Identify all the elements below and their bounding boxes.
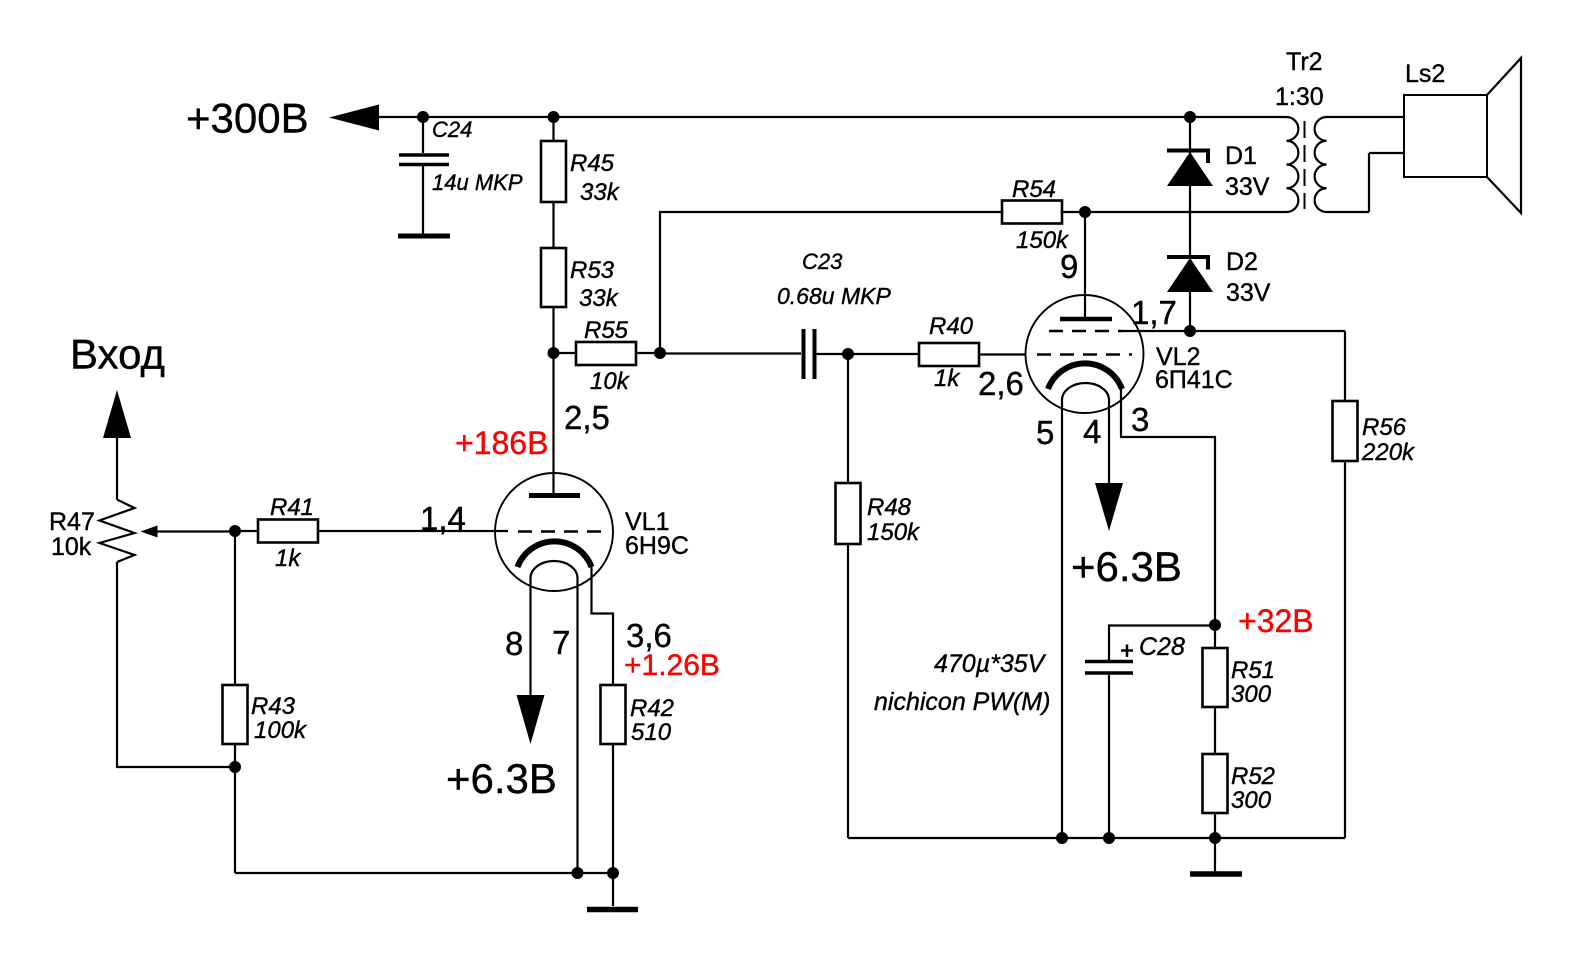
label pin 3 bbox=[1131, 401, 1149, 438]
svg-text:+6.3В: +6.3В bbox=[1071, 543, 1182, 590]
wire feedback riser to R54 line bbox=[660, 212, 1002, 353]
node +300B supply label bbox=[186, 95, 309, 142]
filament VL1 bbox=[531, 561, 578, 578]
svg-text:10k: 10k bbox=[51, 533, 92, 561]
capacitor C24 bbox=[399, 155, 449, 165]
node R52 ground bbox=[1209, 832, 1221, 844]
wire R55 right lead bbox=[636, 352, 660, 354]
label R47 value bbox=[51, 533, 92, 561]
node 2,5 bbox=[548, 347, 560, 359]
svg-text:nichicon PW(M): nichicon PW(M) bbox=[874, 688, 1050, 716]
svg-text:+300В: +300В bbox=[186, 95, 309, 142]
label R43 bbox=[251, 693, 296, 720]
label R55 bbox=[584, 317, 629, 344]
zener D1 bbox=[1167, 152, 1213, 186]
wire C24 top lead bbox=[422, 117, 424, 153]
svg-text:Tr2: Tr2 bbox=[1286, 48, 1323, 76]
svg-text:2,5: 2,5 bbox=[564, 399, 610, 436]
label C28 brand bbox=[874, 688, 1050, 716]
potentiometer R47 bbox=[100, 500, 135, 563]
label R40 bbox=[929, 313, 974, 340]
wire secondary top to speaker bbox=[1327, 116, 1405, 118]
label pins 2,5 bbox=[564, 399, 610, 436]
svg-text:+32В: +32В bbox=[1238, 603, 1314, 639]
label R48 bbox=[867, 494, 912, 521]
wire VL2 pin 4 heater bbox=[1108, 400, 1110, 483]
resistor R40 bbox=[919, 343, 979, 366]
label C24 value bbox=[432, 170, 523, 195]
wire VL2 screen to R56 bbox=[1121, 331, 1345, 401]
label C28 polarity + bbox=[1121, 645, 1133, 658]
node pin5 ground bbox=[1056, 832, 1068, 844]
grid VL1 (dashed) bbox=[518, 530, 603, 533]
svg-text:1k: 1k bbox=[275, 545, 302, 572]
label pins 2,6 bbox=[978, 365, 1024, 402]
label D2 value bbox=[1226, 279, 1271, 307]
label pins 3,6 bbox=[626, 617, 672, 654]
node C24 tap bbox=[417, 111, 429, 123]
svg-text:7: 7 bbox=[552, 624, 570, 661]
filament VL2 bbox=[1062, 383, 1109, 400]
svg-text:1:30: 1:30 bbox=[1275, 83, 1324, 111]
label D1 value bbox=[1225, 173, 1270, 201]
zener D1 cathode bar bbox=[1167, 151, 1210, 164]
ground C24 bbox=[398, 234, 450, 239]
wire R54 to transformer primary bottom bbox=[1062, 211, 1287, 213]
wire R51 top lead bbox=[1214, 625, 1216, 648]
wire R48 bottom lead bbox=[847, 544, 849, 838]
wire R45 top lead bbox=[552, 117, 554, 141]
label R47 bbox=[49, 508, 95, 536]
wire C23 to R40 node bbox=[816, 353, 919, 355]
wire +300B rail bbox=[379, 116, 1287, 118]
label D2 bbox=[1226, 248, 1258, 276]
svg-text:R41: R41 bbox=[270, 494, 314, 521]
label input bbox=[70, 331, 165, 378]
label +1.26B bbox=[624, 649, 720, 682]
anode plate VL1 bbox=[529, 493, 580, 498]
svg-text:C24: C24 bbox=[432, 117, 472, 142]
svg-text:R55: R55 bbox=[584, 317, 629, 344]
label R40 value bbox=[934, 365, 961, 392]
label pin 4 bbox=[1083, 413, 1101, 450]
wire R48 top lead bbox=[847, 354, 849, 483]
svg-text:2,6: 2,6 bbox=[978, 365, 1024, 402]
node 1,7 bbox=[1184, 325, 1196, 337]
svg-text:33k: 33k bbox=[580, 179, 621, 206]
node R42 ground bbox=[607, 867, 619, 879]
arrow +6.3B right bbox=[1095, 483, 1123, 531]
resistor R41 bbox=[258, 520, 318, 543]
svg-text:33V: 33V bbox=[1226, 279, 1271, 307]
wire VL2 anode lead bbox=[1084, 212, 1086, 318]
svg-text:+6.3В: +6.3В bbox=[446, 755, 557, 802]
zener D2 bbox=[1167, 258, 1213, 292]
transformer Tr2 primary bbox=[1287, 117, 1299, 212]
resistor R42 bbox=[601, 685, 626, 744]
label R56 value bbox=[1361, 439, 1416, 466]
label R43 value bbox=[254, 717, 308, 744]
svg-text:R47: R47 bbox=[49, 508, 95, 536]
wire R55 left lead bbox=[554, 352, 577, 354]
svg-text:5: 5 bbox=[1036, 414, 1054, 451]
svg-text:R45: R45 bbox=[570, 150, 615, 177]
resistor R54 bbox=[1002, 201, 1062, 224]
svg-text:C23: C23 bbox=[802, 249, 843, 274]
svg-text:33V: 33V bbox=[1225, 173, 1270, 201]
label +186B bbox=[455, 425, 548, 461]
svg-text:470µ*35V: 470µ*35V bbox=[934, 650, 1047, 678]
wire R52 bottom bbox=[1214, 813, 1216, 838]
wire R42 bottom bbox=[612, 744, 614, 873]
arrow input bbox=[103, 390, 131, 438]
label R54 bbox=[1012, 176, 1056, 203]
resistor R52 bbox=[1203, 754, 1228, 813]
wire R40 to VL2 grid bbox=[979, 353, 1026, 355]
label pin 8 bbox=[505, 625, 523, 662]
label pin 9 bbox=[1060, 248, 1078, 285]
label pin 7 bbox=[552, 624, 570, 661]
node R43 bottom bbox=[229, 761, 241, 773]
wire left ground rail bbox=[235, 872, 613, 874]
svg-text:D2: D2 bbox=[1226, 248, 1258, 276]
svg-text:D1: D1 bbox=[1225, 142, 1257, 170]
wire VL1 pin 8 heater bbox=[529, 578, 531, 695]
transformer Tr2 core bbox=[1304, 121, 1306, 209]
svg-text:R48: R48 bbox=[867, 494, 912, 521]
label +6.3B left bbox=[446, 755, 557, 802]
label R45 value bbox=[580, 179, 621, 206]
label R55 value bbox=[590, 368, 631, 395]
node VL2 anode tap bbox=[1079, 206, 1091, 218]
svg-text:R40: R40 bbox=[929, 313, 974, 340]
label R53 bbox=[570, 257, 615, 284]
label +32B bbox=[1238, 603, 1314, 639]
label R53 value bbox=[579, 285, 620, 312]
svg-text:100k: 100k bbox=[254, 717, 308, 744]
label D1 bbox=[1225, 142, 1257, 170]
label R41 value bbox=[275, 545, 302, 572]
wire VL2 cathode to +32B node bbox=[1121, 389, 1215, 625]
svg-text:150k: 150k bbox=[867, 519, 921, 546]
svg-text:0.68u MKP: 0.68u MKP bbox=[777, 283, 891, 309]
anode plate VL2 bbox=[1060, 317, 1112, 322]
svg-text:+186В: +186В bbox=[455, 425, 548, 461]
wire C24 bottom lead bbox=[422, 166, 424, 236]
svg-text:14u MKP: 14u MKP bbox=[432, 170, 523, 195]
label R42 bbox=[630, 695, 674, 722]
svg-text:R54: R54 bbox=[1012, 176, 1056, 203]
label C28 bbox=[1139, 633, 1185, 661]
speaker Ls2 horn bbox=[1487, 58, 1521, 213]
label pin 5 bbox=[1036, 414, 1054, 451]
label R54 value bbox=[1016, 227, 1070, 254]
svg-text:510: 510 bbox=[631, 719, 672, 746]
wire VL1 pin 7 heater bbox=[576, 578, 578, 873]
wire R53 to node 2,5 bbox=[552, 307, 554, 353]
label R51 bbox=[1231, 657, 1275, 684]
svg-text:R42: R42 bbox=[630, 695, 674, 722]
svg-text:Вход: Вход bbox=[70, 331, 165, 378]
label R52 value bbox=[1231, 787, 1272, 814]
label R51 value bbox=[1231, 681, 1272, 708]
svg-text:1,7: 1,7 bbox=[1131, 294, 1177, 331]
label Ls2 bbox=[1405, 60, 1445, 88]
wire R45-R53 bbox=[552, 202, 554, 248]
node pin7 ground bbox=[572, 867, 584, 879]
node C23-R40-R48 bbox=[842, 348, 854, 360]
zener D2 cathode bar bbox=[1167, 257, 1210, 270]
wire node to R43 bbox=[234, 531, 236, 685]
node D1 tap bbox=[1184, 111, 1196, 123]
label pins 1,4 bbox=[420, 500, 466, 537]
wire R41 left lead bbox=[235, 530, 258, 532]
wire node 2,5 to VL1 anode bbox=[552, 353, 554, 494]
tube VL2 envelope bbox=[1026, 295, 1144, 413]
control grid VL2 (dashed) bbox=[1037, 353, 1132, 356]
ground left bbox=[587, 907, 638, 913]
svg-text:R52: R52 bbox=[1231, 763, 1275, 790]
svg-text:1k: 1k bbox=[934, 365, 961, 392]
node R45 tap bbox=[548, 111, 560, 123]
svg-text:300: 300 bbox=[1231, 787, 1272, 814]
label VL1 type bbox=[625, 532, 689, 560]
label pins 1,7 bbox=[1131, 294, 1177, 331]
wire input arrow to pot bbox=[116, 437, 118, 500]
label C23 value bbox=[777, 283, 891, 309]
cathode VL2 bbox=[1048, 363, 1122, 389]
label +6.3B right bbox=[1071, 543, 1182, 590]
label C28 value bbox=[934, 650, 1047, 678]
resistor R53 bbox=[541, 248, 566, 307]
resistor R45 bbox=[541, 141, 566, 202]
wire R51-R52 bbox=[1214, 707, 1216, 754]
label R45 bbox=[570, 150, 615, 177]
arrow +6.3B left bbox=[517, 695, 545, 744]
wire grid wire into VL1 bbox=[318, 530, 508, 532]
wire VL2 pin 5 heater bbox=[1061, 400, 1063, 838]
svg-text:9: 9 bbox=[1060, 248, 1078, 285]
resistor R51 bbox=[1203, 648, 1228, 707]
capacitor C23 bbox=[804, 329, 815, 379]
wire secondary bottom to speaker bbox=[1327, 153, 1405, 212]
svg-text:R53: R53 bbox=[570, 257, 615, 284]
tube VL1 envelope bbox=[495, 473, 613, 591]
svg-text:6П41С: 6П41С bbox=[1155, 366, 1233, 394]
capacitor C28 bbox=[1085, 662, 1133, 674]
svg-text:C28: C28 bbox=[1139, 633, 1185, 661]
svg-text:10k: 10k bbox=[590, 368, 631, 395]
resistor R56 bbox=[1333, 401, 1358, 461]
transformer Tr2 secondary bbox=[1315, 117, 1327, 212]
arrow potentiometer wiper bbox=[141, 526, 158, 538]
resistor R48 bbox=[836, 483, 861, 544]
wire C28 top bbox=[1109, 626, 1215, 662]
svg-text:R51: R51 bbox=[1231, 657, 1275, 684]
node R55 output bbox=[654, 347, 666, 359]
label VL1 bbox=[625, 508, 669, 536]
svg-text:3: 3 bbox=[1131, 401, 1149, 438]
wire wiper to node bbox=[156, 530, 235, 532]
ground left stem bbox=[612, 873, 614, 906]
wire C28 bottom bbox=[1108, 675, 1110, 838]
resistor R55 bbox=[576, 342, 636, 365]
speaker Ls2 box bbox=[1404, 95, 1487, 177]
label R56 bbox=[1362, 414, 1407, 441]
label VL2 bbox=[1156, 343, 1200, 371]
label C23 bbox=[802, 249, 843, 274]
wire right ground rail bbox=[848, 837, 1345, 839]
wire VL1 cathode to R42 bbox=[592, 567, 614, 685]
label Tr2 bbox=[1286, 48, 1323, 76]
label Tr2 ratio bbox=[1275, 83, 1324, 111]
svg-text:R43: R43 bbox=[251, 693, 296, 720]
svg-text:33k: 33k bbox=[579, 285, 620, 312]
svg-text:8: 8 bbox=[505, 625, 523, 662]
ground right bbox=[1190, 871, 1242, 877]
resistor R43 bbox=[223, 685, 248, 744]
arrow +300B bbox=[329, 105, 379, 131]
ground right stem bbox=[1214, 838, 1216, 872]
screen grid VL2 (dashed) bbox=[1049, 330, 1122, 333]
node C28 ground bbox=[1103, 832, 1115, 844]
svg-text:6Н9С: 6Н9С bbox=[625, 532, 689, 560]
label R52 bbox=[1231, 763, 1275, 790]
svg-text:300: 300 bbox=[1231, 681, 1272, 708]
svg-text:Ls2: Ls2 bbox=[1405, 60, 1445, 88]
wire pot bottom to R43 node bbox=[117, 562, 235, 767]
svg-text:4: 4 bbox=[1083, 413, 1101, 450]
label R48 value bbox=[867, 519, 921, 546]
wire node 2,5 to C23 bbox=[660, 352, 801, 354]
label R42 value bbox=[631, 719, 672, 746]
node +32B bbox=[1209, 619, 1221, 631]
svg-text:+1.26В: +1.26В bbox=[624, 649, 720, 682]
svg-text:220k: 220k bbox=[1361, 439, 1416, 466]
wire D1-D2 string bbox=[1189, 117, 1191, 331]
label VL2 type bbox=[1155, 366, 1233, 394]
label C24 bbox=[432, 117, 472, 142]
wire R56 bottom bbox=[1344, 461, 1346, 838]
wire R43 bottom to ground rail bbox=[234, 744, 236, 873]
node R41 input bbox=[229, 525, 241, 537]
svg-text:R56: R56 bbox=[1362, 414, 1407, 441]
cathode VL1 bbox=[518, 541, 592, 567]
label R41 bbox=[270, 494, 314, 521]
